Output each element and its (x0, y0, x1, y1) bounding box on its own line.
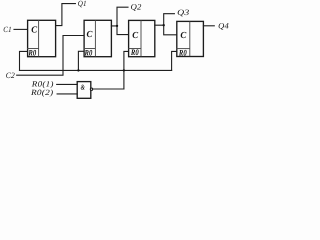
flip-flop T3 box (129, 20, 155, 56)
wire FF4 R0 drop (172, 51, 177, 70)
junction dot Q3/C4 (163, 24, 165, 26)
svg-text:R0(2): R0(2) (30, 88, 54, 97)
svg-text:R0(1): R0(1) (31, 79, 54, 88)
svg-text:&: & (81, 83, 85, 92)
flip-flop T4 box (177, 21, 204, 56)
svg-text:C: C (132, 30, 139, 40)
wire FF2 R0 drop (78, 51, 84, 70)
svg-text:R0: R0 (28, 49, 37, 58)
wire R0(2) input (57, 93, 77, 95)
flip-flop T2 box (84, 20, 111, 56)
wire C2 input (17, 36, 84, 76)
svg-text:R0: R0 (84, 49, 93, 58)
svg-text:R0: R0 (178, 48, 187, 57)
junction dot NAND riser on rail (123, 69, 125, 71)
svg-text:C: C (180, 30, 187, 40)
wire Q4 output (203, 25, 214, 27)
junction dot Q2/C3 (116, 25, 118, 27)
wire Q3 output (155, 14, 175, 26)
svg-text:C1: C1 (3, 25, 11, 34)
svg-text:Q4: Q4 (218, 21, 229, 30)
svg-text:C2: C2 (6, 71, 15, 80)
junction dot FF2 R0 on rail (77, 69, 79, 71)
svg-text:C: C (87, 29, 94, 39)
svg-text:Q1: Q1 (78, 0, 87, 8)
svg-text:Q3: Q3 (177, 8, 189, 17)
wire R0(1) input (57, 83, 77, 85)
svg-text:Q2: Q2 (131, 2, 142, 11)
wire FF3 R0 drop / NAND output riser (124, 51, 128, 89)
NAND gate box (77, 82, 91, 99)
wire Q1 output (56, 4, 76, 26)
NAND output bubble (90, 88, 92, 90)
wire FF3 to FF4 clock (164, 25, 177, 35)
svg-text:C: C (31, 25, 38, 35)
svg-text:R0: R0 (130, 48, 139, 57)
wire reset rail (20, 69, 172, 71)
flip-flop T1 box (28, 20, 56, 56)
wire FF1 R0 to reset rail (20, 51, 28, 70)
wire FF2 to FF3 clock (117, 26, 128, 35)
wire C1 input (14, 28, 27, 30)
wire Q2 output (111, 7, 128, 26)
wire NAND output (93, 88, 124, 90)
